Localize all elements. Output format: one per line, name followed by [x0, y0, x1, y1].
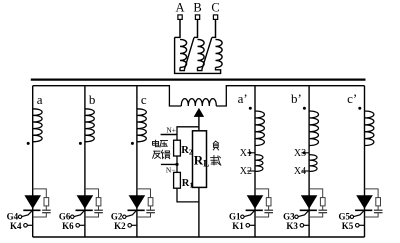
feedback tap N+ [161, 134, 177, 136]
branch c wire [136, 86, 138, 237]
gate terminal G2 [123, 215, 126, 218]
resistor R2 [174, 140, 181, 156]
delta return wire (winding3 to node A) [175, 37, 221, 73]
cathode terminal K5 [356, 224, 360, 228]
winding a [33, 109, 42, 142]
svg-text:X2: X2 [240, 166, 252, 177]
bus wire right section [216, 86, 364, 106]
svg-text:C: C [211, 0, 219, 14]
delta link winding2->winding3 [202, 38, 212, 70]
load resistor RL [193, 131, 207, 188]
gate terminal G5 [350, 215, 353, 218]
thyristor V5 [357, 196, 372, 209]
RC snubber of V4 [33, 189, 47, 198]
winding a' [255, 111, 264, 145]
svg-text:K2: K2 [114, 221, 126, 231]
polarity dot c [131, 142, 134, 145]
resistor R1 [174, 172, 181, 188]
svg-text:K4: K4 [10, 221, 22, 231]
branch a' wire [254, 86, 256, 237]
busbar (thick) [31, 78, 366, 80]
svg-text:c: c [141, 92, 147, 107]
svg-text:b: b [89, 92, 96, 107]
thyristor V4 [25, 196, 40, 209]
feedback tap N- [161, 163, 177, 165]
wire RL bottom to bus [198, 187, 200, 237]
branch a wire [32, 86, 34, 237]
cathode terminal K1 [246, 224, 250, 228]
svg-text:G1: G1 [229, 212, 241, 222]
polarity dot c' [358, 107, 361, 110]
RC snubber of V5 [365, 189, 379, 198]
svg-text:G3: G3 [283, 212, 295, 222]
svg-text:K6: K6 [62, 221, 74, 231]
RC snubber of V6 [85, 189, 99, 198]
svg-text:G2: G2 [111, 212, 123, 222]
thyristor V3 [302, 196, 317, 209]
thyristor V2 [129, 196, 144, 209]
series inductor L [181, 99, 216, 106]
gate terminal G6 [71, 215, 74, 218]
wire R2 to R1 [176, 156, 178, 172]
transformer winding 1 (A) [175, 36, 180, 38]
label fuzai (load) [213, 141, 218, 150]
RC snubber of V3 [309, 189, 323, 198]
svg-text:N+: N+ [166, 125, 176, 134]
wire C to winding 3 [215, 19, 217, 38]
svg-text:b’: b’ [291, 91, 302, 106]
svg-text:K1: K1 [232, 221, 244, 231]
gate terminal G1 [241, 215, 244, 218]
gate terminal G4 [18, 215, 21, 218]
winding c' [365, 111, 374, 145]
svg-text:G6: G6 [59, 212, 71, 222]
winding c [137, 109, 146, 142]
node line to divider [177, 127, 199, 140]
svg-text:a’: a’ [238, 91, 248, 106]
bottom return bus [33, 236, 365, 238]
cathode terminal K6 [76, 224, 80, 228]
wire divider bottom [177, 188, 199, 202]
cathode terminal K2 [128, 224, 132, 228]
thyristor V1 [247, 196, 262, 209]
svg-text:G5: G5 [338, 212, 350, 222]
RC snubber of V2 [137, 189, 151, 198]
branch c' wire [364, 86, 366, 237]
cathode terminal K4 [24, 224, 28, 228]
svg-text:R2: R2 [181, 145, 193, 157]
wire B to winding 2 [197, 19, 199, 38]
thyristor V6 [77, 196, 92, 209]
transformer winding 3 (C) [212, 36, 216, 38]
gate terminal G3 [295, 215, 298, 218]
svg-text:K3: K3 [286, 221, 298, 231]
branch b wire [84, 86, 86, 237]
svg-text:G4: G4 [7, 212, 19, 222]
wiper arrow on inductor [194, 109, 203, 117]
control winding X1-X2 [255, 155, 263, 172]
polarity dot b' [303, 107, 306, 110]
svg-text:A: A [175, 0, 184, 14]
svg-text:B: B [193, 0, 201, 14]
svg-text:a: a [37, 92, 43, 107]
polarity dot a [27, 142, 30, 145]
transformer winding 2 (B) [194, 36, 198, 38]
svg-text:R1: R1 [182, 178, 194, 190]
winding b' [309, 111, 318, 145]
svg-text:K5: K5 [342, 221, 354, 231]
polarity dot b [79, 142, 82, 145]
control winding X3-X4 [309, 155, 317, 172]
delta link winding1->winding2 [184, 38, 194, 70]
branch b' wire [308, 86, 310, 237]
RC snubber of V1 [255, 189, 269, 198]
winding b [85, 109, 94, 142]
wire A to winding 1 [179, 19, 181, 38]
svg-text:X4: X4 [294, 166, 306, 177]
cathode terminal K3 [300, 224, 304, 228]
bus wire left section [33, 86, 182, 106]
polarity dot a' [249, 107, 252, 110]
label dianya fankui (voltage feedback) [153, 140, 159, 146]
svg-text:c’: c’ [347, 91, 357, 106]
